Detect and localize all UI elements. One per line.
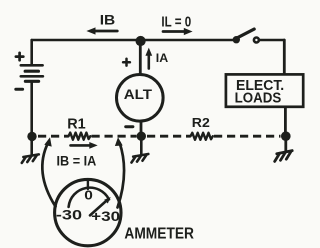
resistor R2 [191, 133, 213, 140]
battery minus label [16, 88, 23, 91]
ground left [22, 141, 39, 163]
alternator minus label [126, 125, 133, 128]
wire top bus from battery to switch [32, 39, 233, 42]
arrow current through R1 (right) [71, 142, 98, 149]
arrow IL (right) [163, 28, 193, 35]
wire node to alternator [139, 41, 142, 75]
svg-text:IB: IB [100, 12, 116, 28]
svg-text:IL = 0: IL = 0 [161, 13, 191, 30]
node top junction [136, 36, 146, 46]
ammeter scale arc [69, 188, 109, 207]
svg-text:R1: R1 [67, 115, 86, 132]
ammeter top tick [87, 180, 89, 189]
ammeter M1 circle [55, 179, 121, 245]
wire dashed bus R2 to right node [214, 135, 281, 138]
ELECT. LOADS box [226, 74, 303, 106]
arrow IB (left) [86, 27, 117, 34]
svg-text:IB = IA: IB = IA [57, 153, 97, 168]
switch S1 [233, 29, 259, 43]
op-amp: alternator circle U1 [117, 75, 164, 122]
battery B1 plates [21, 65, 43, 81]
svg-text:LOADS: LOADS [235, 90, 282, 106]
svg-text:R2: R2 [192, 115, 210, 130]
node left junction [27, 132, 36, 141]
wire dashed bus left node to R1 [38, 135, 69, 138]
wire battery bottom to left node [30, 83, 33, 138]
curved arrow left (ammeter to R1 left) [42, 137, 55, 206]
node middle junction [137, 132, 146, 141]
wire alternator to middle node [140, 121, 143, 137]
svg-text:+30: +30 [91, 209, 120, 224]
svg-text:0: 0 [84, 187, 93, 202]
svg-text:AMMETER: AMMETER [124, 226, 194, 243]
ammeter needle [90, 197, 111, 215]
alternator plus label [123, 59, 130, 66]
resistor R1 [69, 133, 91, 140]
wire dashed bus R1 to middle node [92, 135, 137, 138]
wire loads box to right node [284, 107, 287, 137]
battery plus label [16, 53, 23, 60]
svg-text:ALT: ALT [124, 87, 153, 102]
wire right corner down to loads box [283, 40, 286, 74]
svg-text:-30: -30 [56, 208, 82, 223]
wire dashed bus middle node to R2 [147, 135, 191, 138]
ground right [275, 141, 293, 162]
svg-text:IA: IA [156, 51, 169, 65]
arrow IA (up) [145, 48, 152, 69]
wire battery top drop [30, 40, 33, 64]
node right junction [281, 131, 291, 141]
ground middle [132, 141, 149, 163]
wire switch to right corner [260, 39, 285, 42]
curved arrow right (ammeter to R1 right) [115, 137, 124, 207]
